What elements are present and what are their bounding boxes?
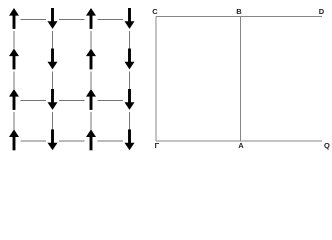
spin arrow down (row 2, col 2) [48,49,58,70]
wire: vertical bond col 2, row 2-3 [52,71,54,89]
wire: vertical bond col 1, row 2-3 [13,71,15,89]
Brillouin zone: top edge C-D [156,16,322,18]
spin arrow down (row 4, col 4) [125,129,135,150]
spin arrow down (row 4, col 2) [48,129,58,150]
spin arrow down (row 2, col 4) [125,49,135,70]
spin arrow down (row 1, col 2) [48,8,58,29]
svg-text:D: D [319,7,325,16]
spin arrow up (row 4, col 1) [9,129,19,150]
wire: vertical bond col 3, row 3-4 [90,112,92,130]
spin arrow down (row 3, col 4) [125,89,135,110]
wire: horizontal bond row 4, col 1-2 [21,140,46,142]
spin arrow up (row 1, col 1) [9,8,19,29]
spin arrow up (row 4, col 3) [86,129,96,150]
spin arrow up (row 1, col 3) [86,8,96,29]
wire: horizontal bond row 1, col 2-3 [59,19,85,21]
wire: horizontal bond row 3, col 2-3 [59,100,85,102]
wire: vertical bond col 4, row 3-4 [129,112,131,130]
svg-text:Γ: Γ [155,141,160,150]
svg-text:B: B [236,7,242,16]
svg-text:C: C [152,7,158,16]
Brillouin zone: bottom edge Gamma-Q [156,140,322,142]
wire: vertical bond col 4, row 2-3 [129,71,131,89]
spin arrow down (row 3, col 2) [48,89,58,110]
spin arrow down (row 1, col 4) [125,8,135,29]
wire: vertical bond col 1, row 1-2 [13,31,15,49]
Brillouin zone: middle line B-A [240,17,242,141]
wire: vertical bond col 2, row 3-4 [52,112,54,130]
wire: vertical bond col 2, row 1-2 [52,31,54,49]
wire: horizontal bond row 3, col 1-2 [21,100,46,102]
wire: horizontal bond row 4, col 3-4 [98,140,124,142]
spin arrow up (row 3, col 1) [9,89,19,110]
wire: horizontal bond row 1, col 3-4 [98,19,124,21]
wire: vertical bond col 4, row 1-2 [129,31,131,49]
wire: horizontal bond row 3, col 3-4 [98,100,124,102]
spin arrow up (row 2, col 1) [9,49,19,70]
wire: vertical bond col 1, row 3-4 [13,112,15,130]
spin arrow up (row 3, col 3) [86,89,96,110]
spin arrow up (row 2, col 3) [86,49,96,70]
svg-text:A: A [238,141,244,150]
Brillouin zone: left edge C-Gamma [155,17,157,141]
wire: horizontal bond row 4, col 2-3 [59,140,85,142]
wire: vertical bond col 3, row 1-2 [90,31,92,49]
wire: horizontal bond row 1, col 1-2 [21,19,46,21]
svg-text:Q: Q [324,141,330,150]
wire: vertical bond col 3, row 2-3 [90,71,92,89]
